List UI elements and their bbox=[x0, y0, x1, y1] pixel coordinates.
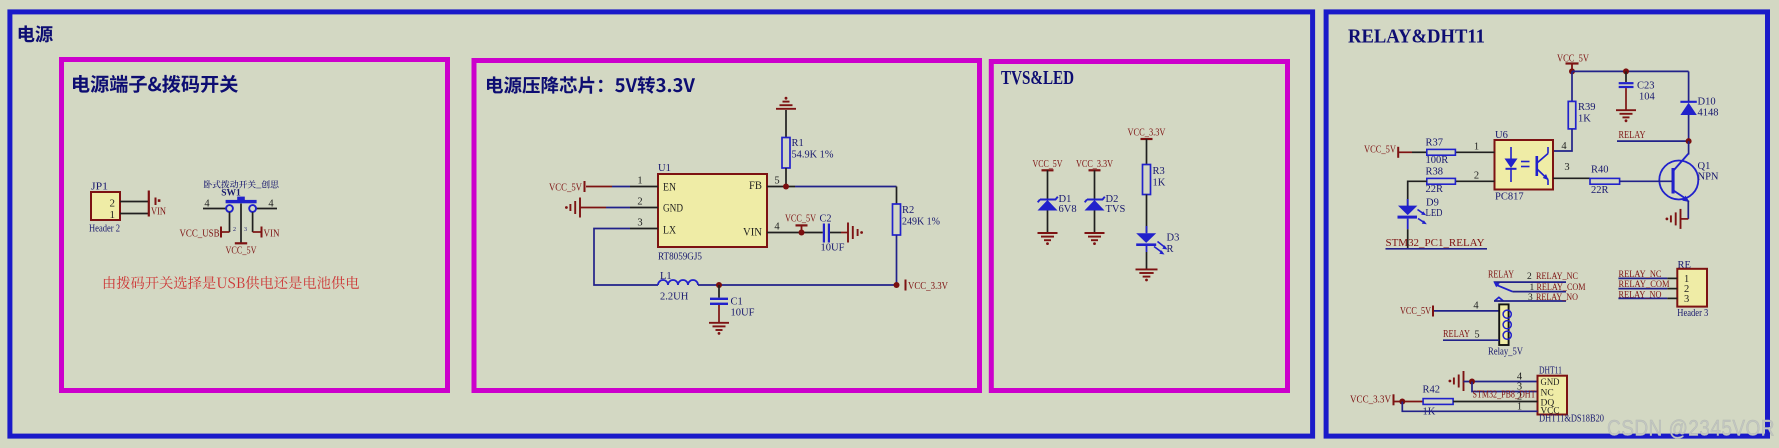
svg-text:54.9K 1%: 54.9K 1% bbox=[792, 150, 834, 161]
svg-text:RELAY_NC: RELAY_NC bbox=[1536, 272, 1578, 282]
R39 bottom wire bbox=[1553, 129, 1572, 151]
svg-text:100R: 100R bbox=[1426, 155, 1449, 166]
svg-text:LX: LX bbox=[663, 225, 677, 237]
U1 pin4 stub bbox=[767, 232, 795, 234]
svg-text:4: 4 bbox=[774, 222, 780, 233]
svg-text:R38: R38 bbox=[1426, 167, 1444, 178]
junction at C1 bbox=[716, 282, 722, 288]
svg-text:DHT11&DS18B20: DHT11&DS18B20 bbox=[1539, 414, 1604, 425]
svg-text:3: 3 bbox=[244, 227, 247, 233]
D9 light arrows bbox=[1418, 210, 1425, 223]
wire gnd to DHT11 GND bbox=[1464, 381, 1538, 383]
ground at DHT11 bbox=[1463, 371, 1465, 391]
svg-text:VIN: VIN bbox=[151, 207, 166, 218]
svg-text:RELAY: RELAY bbox=[1619, 130, 1646, 141]
power port VCC_5V bar under SW1 bbox=[235, 242, 247, 244]
relay NO contact wire bbox=[1494, 300, 1566, 302]
svg-text:D9: D9 bbox=[1426, 198, 1439, 209]
D10 bottom wire bbox=[1688, 115, 1690, 141]
net terminal bar at JP1 bbox=[148, 191, 150, 217]
junction at C23 bbox=[1623, 68, 1629, 74]
svg-text:4148: 4148 bbox=[1698, 108, 1719, 119]
SW1 left wire bbox=[203, 208, 226, 210]
RE pin1 stub bbox=[1667, 277, 1677, 279]
U6 internal transistor bbox=[1536, 156, 1539, 176]
wire to VCC_USB bbox=[222, 231, 230, 233]
junction VCC_3.3V branch bbox=[1399, 399, 1405, 405]
svg-text:R42: R42 bbox=[1423, 385, 1441, 396]
svg-text:4: 4 bbox=[1561, 141, 1567, 152]
C23 bottom stub bbox=[1625, 88, 1627, 110]
diode D10 cathode bar bbox=[1680, 101, 1696, 103]
ground below C23 bbox=[1616, 109, 1636, 111]
svg-text:R2: R2 bbox=[902, 205, 914, 216]
svg-text:EN: EN bbox=[663, 182, 677, 194]
Q1 base bar bbox=[1672, 168, 1675, 194]
sub-box 电源压降芯片 frame bbox=[474, 61, 980, 391]
svg-text:C23: C23 bbox=[1637, 81, 1655, 92]
svg-text:R: R bbox=[1167, 244, 1174, 255]
capacitor C2 left plate bbox=[823, 224, 825, 243]
C23 top stub bbox=[1625, 71, 1627, 82]
svg-text:RELAY_COM: RELAY_COM bbox=[1619, 280, 1670, 290]
svg-text:RELAY&DHT11: RELAY&DHT11 bbox=[1348, 26, 1485, 48]
svg-text:R1: R1 bbox=[792, 138, 804, 149]
svg-text:104: 104 bbox=[1639, 92, 1656, 103]
RE pin2 stub bbox=[1667, 288, 1677, 290]
svg-text:1: 1 bbox=[110, 209, 116, 221]
svg-text:VCC_5V: VCC_5V bbox=[549, 183, 582, 194]
capacitor C1 bottom plate bbox=[710, 303, 728, 305]
D3 light arrows bbox=[1154, 242, 1165, 253]
ground at U1.GND bbox=[579, 198, 581, 218]
svg-text:R40: R40 bbox=[1591, 165, 1609, 176]
R3-D3 wire blue part bbox=[1146, 226, 1148, 233]
relay arm bbox=[1496, 285, 1513, 292]
svg-text:10UF: 10UF bbox=[731, 308, 755, 319]
U1 pin2 stub bbox=[630, 207, 658, 209]
svg-text:Header 3: Header 3 bbox=[1677, 308, 1708, 319]
relay coil body bbox=[1499, 304, 1508, 345]
svg-text:249K 1%: 249K 1% bbox=[902, 217, 940, 228]
resistor R2 bbox=[893, 204, 901, 235]
U6 pin2 stub bbox=[1455, 180, 1494, 182]
svg-text:VCC_5V: VCC_5V bbox=[1033, 159, 1063, 170]
wire to NC pin bbox=[1472, 382, 1538, 392]
JP1 pin 1 wire bbox=[120, 213, 148, 215]
relay COM contact wire bbox=[1512, 291, 1566, 293]
resistor R38 bbox=[1427, 178, 1456, 184]
C2 right stub bbox=[830, 232, 841, 234]
svg-text:VCC_5V: VCC_5V bbox=[1364, 145, 1396, 156]
annotation 由拨码开关选择是USB供电还是电池供电 bbox=[104, 276, 359, 289]
R39 top wire bbox=[1571, 71, 1573, 101]
capacitor C2 right plate bbox=[828, 224, 830, 243]
title 电源压降芯片：5V转3.3V bbox=[487, 76, 695, 94]
net terminal bar VCC_USB bbox=[220, 227, 222, 238]
title 电源端子&拨码开关 bbox=[73, 75, 238, 93]
net terminal bar VCC_3.3V bbox=[905, 280, 907, 291]
svg-text:RELAY_NO: RELAY_NO bbox=[1536, 293, 1578, 303]
resistor R39 bbox=[1568, 101, 1576, 128]
svg-text:4: 4 bbox=[1473, 300, 1479, 311]
sub-box 电源端子&拨码开关 frame bbox=[62, 60, 448, 391]
ground above R1 bbox=[776, 108, 796, 110]
R3 top wire bbox=[1146, 139, 1148, 165]
svg-text:PC817: PC817 bbox=[1495, 192, 1524, 203]
R3 bottom wire bbox=[1146, 195, 1148, 233]
wire RELAY_COM to RE bbox=[1618, 288, 1667, 290]
R2 bottom wire bbox=[896, 235, 898, 285]
svg-text:LED: LED bbox=[1426, 208, 1443, 219]
svg-text:R39: R39 bbox=[1578, 102, 1596, 113]
capacitor C23 plates bbox=[1619, 82, 1634, 84]
resistor R3 bbox=[1143, 165, 1151, 195]
relay NO contact symbol bbox=[1495, 297, 1504, 301]
wire FB to R2 bbox=[896, 187, 898, 205]
wire VCC_3.3V to R42 bbox=[1395, 401, 1424, 403]
wire rail corner to D10 bbox=[1688, 71, 1690, 101]
svg-text:R3: R3 bbox=[1153, 166, 1165, 177]
VCC_5V stem bbox=[1571, 64, 1573, 72]
wire FB node bbox=[795, 186, 897, 188]
svg-text:VCC_5V: VCC_5V bbox=[785, 214, 816, 225]
svg-text:RT8059GJ5: RT8059GJ5 bbox=[658, 252, 702, 263]
LED D9 bbox=[1398, 206, 1417, 216]
svg-text:6V8: 6V8 bbox=[1059, 204, 1077, 215]
svg-text:GND: GND bbox=[663, 203, 683, 215]
svg-text:RELAY_NC: RELAY_NC bbox=[1619, 270, 1662, 280]
transistor Q1 circle bbox=[1659, 161, 1698, 200]
svg-text:D3: D3 bbox=[1167, 233, 1180, 244]
svg-text:Q1: Q1 bbox=[1698, 161, 1711, 172]
inductor L1 bbox=[658, 280, 698, 285]
junction VCC_3.3V bbox=[894, 282, 900, 288]
svg-text:Header 2: Header 2 bbox=[89, 224, 120, 235]
wire gnd to GND pin bbox=[580, 207, 606, 209]
U6 pin3 stub bbox=[1553, 177, 1590, 179]
svg-text:2: 2 bbox=[1474, 171, 1479, 182]
svg-text:STM32_PB8_DHT: STM32_PB8_DHT bbox=[1473, 390, 1536, 401]
JP1 pin 2 wire bbox=[120, 201, 148, 203]
wire RELAY_NC to RE bbox=[1618, 277, 1667, 279]
U6 internal LED bbox=[1505, 159, 1518, 169]
svg-text:2: 2 bbox=[1527, 272, 1532, 282]
svg-text:3: 3 bbox=[637, 218, 642, 229]
resistor R37 bbox=[1427, 149, 1456, 155]
SW1 centre leg wire bbox=[240, 204, 242, 243]
svg-text:DHT11: DHT11 bbox=[1539, 366, 1562, 377]
svg-text:2: 2 bbox=[637, 197, 642, 208]
svg-text:3: 3 bbox=[1528, 293, 1533, 303]
svg-text:CSDN @2345VOR: CSDN @2345VOR bbox=[1607, 416, 1775, 441]
wire VIN node bbox=[795, 232, 823, 234]
D2 bottom wire bbox=[1094, 211, 1096, 233]
svg-text:5: 5 bbox=[1474, 330, 1479, 341]
svg-text:R37: R37 bbox=[1426, 138, 1444, 149]
junction VIN/C2 bbox=[799, 230, 805, 236]
svg-text:22R: 22R bbox=[1426, 184, 1444, 195]
resistor R1 bbox=[782, 138, 790, 169]
R1 top wire bbox=[785, 110, 787, 138]
svg-text:1K: 1K bbox=[1578, 114, 1591, 125]
svg-text:3: 3 bbox=[1564, 162, 1569, 173]
svg-text:VCC_3.3V: VCC_3.3V bbox=[1128, 128, 1166, 139]
U6 coupling lines bbox=[1521, 161, 1530, 163]
optocoupler U6 body bbox=[1495, 140, 1554, 190]
junction FB/R1 bbox=[783, 184, 789, 190]
wire VCC_5V to EN bbox=[586, 186, 612, 188]
R1 bottom stub bbox=[785, 168, 787, 187]
svg-text:2: 2 bbox=[233, 227, 236, 233]
coil pin 4 wire bbox=[1434, 310, 1499, 312]
junction RELAY/D10/Q1 bbox=[1686, 138, 1692, 144]
svg-text:3: 3 bbox=[1684, 294, 1689, 305]
RE pin3 stub bbox=[1667, 297, 1677, 299]
power port VCC_5V at VIN bbox=[801, 225, 803, 232]
ground below D2 bbox=[1085, 232, 1105, 234]
ground at Q1 emitter bbox=[1680, 209, 1682, 229]
wire R38 to D9 bbox=[1408, 181, 1427, 206]
D1 top wire bbox=[1047, 170, 1049, 199]
label 卧式拨动开关_创思 bbox=[204, 180, 279, 188]
svg-text:VCC_5V: VCC_5V bbox=[226, 246, 257, 257]
svg-text:2: 2 bbox=[110, 198, 116, 210]
svg-text:TVS&LED: TVS&LED bbox=[1001, 67, 1074, 89]
svg-text:NC: NC bbox=[1541, 389, 1554, 399]
svg-text:1: 1 bbox=[1530, 283, 1535, 293]
R38-D9 wire blue part bbox=[1407, 199, 1409, 206]
title 电源 bbox=[19, 25, 53, 42]
D3 bottom wire bbox=[1146, 246, 1148, 252]
wire to Q1 collector bbox=[1688, 141, 1690, 154]
connector JP1 body bbox=[91, 192, 120, 220]
SW1 left contact circle bbox=[226, 205, 233, 212]
TVS diode D2 bbox=[1085, 197, 1105, 203]
svg-text:RELAY: RELAY bbox=[1443, 329, 1470, 340]
C1 stub down bbox=[718, 305, 720, 322]
resistor R42 bbox=[1423, 399, 1453, 405]
svg-text:VCC_3.3V: VCC_3.3V bbox=[1076, 159, 1113, 170]
SW1 right contact circle bbox=[249, 205, 256, 212]
sensor DHT11 body bbox=[1538, 376, 1568, 415]
svg-text:U1: U1 bbox=[658, 163, 671, 174]
regulator U1 body bbox=[658, 174, 767, 247]
U6 pin1 stub bbox=[1455, 151, 1494, 153]
svg-text:5: 5 bbox=[774, 176, 779, 187]
svg-text:1: 1 bbox=[1474, 142, 1479, 153]
svg-text:VCC_3.3V: VCC_3.3V bbox=[908, 281, 948, 292]
Q1 collector stroke bbox=[1674, 154, 1689, 171]
svg-text:C2: C2 bbox=[820, 214, 832, 225]
connector RE body bbox=[1677, 269, 1707, 307]
svg-text:D10: D10 bbox=[1698, 97, 1716, 108]
wire LX down to L1 bbox=[594, 229, 658, 286]
wire RELAY net bbox=[1617, 140, 1689, 142]
svg-text:NPN: NPN bbox=[1698, 172, 1719, 183]
U1 pin3 stub bbox=[630, 228, 658, 230]
capacitor C1 top plate bbox=[710, 298, 728, 300]
svg-text:STM32_PC1_RELAY: STM32_PC1_RELAY bbox=[1386, 238, 1485, 249]
sub-box TVS&LED frame bbox=[991, 62, 1287, 391]
wire STM32_PC1_RELAY bbox=[1386, 248, 1488, 250]
ground right of C2 bbox=[847, 223, 849, 243]
svg-text:C1: C1 bbox=[731, 297, 743, 308]
svg-text:JP1: JP1 bbox=[91, 182, 108, 193]
wire RELAY_NO to RE bbox=[1618, 297, 1667, 299]
relay NC contact wire bbox=[1494, 281, 1566, 283]
diode D10 bbox=[1680, 103, 1696, 115]
svg-text:FB: FB bbox=[749, 180, 762, 192]
resistor R40 bbox=[1590, 178, 1620, 184]
junction VCC_5V rail left bbox=[1569, 68, 1575, 74]
Q1 emitter stroke bbox=[1674, 191, 1688, 200]
wire to VIN bbox=[253, 231, 261, 233]
svg-text:RELAY: RELAY bbox=[1488, 269, 1514, 280]
SW1 right leg wire bbox=[252, 212, 254, 232]
LED D3 bbox=[1136, 233, 1156, 243]
svg-text:2.2UH: 2.2UH bbox=[660, 292, 689, 303]
net terminal bar VIN bbox=[261, 227, 263, 238]
C1 stub up bbox=[718, 285, 720, 298]
U1 pin5 stub bbox=[767, 186, 795, 188]
junction gnd/NC bbox=[1469, 379, 1475, 385]
svg-text:22R: 22R bbox=[1591, 185, 1609, 196]
svg-text:4: 4 bbox=[268, 199, 274, 210]
svg-text:VCC_3.3V: VCC_3.3V bbox=[1350, 395, 1391, 406]
wire VCC_5V to R37 bbox=[1399, 151, 1412, 153]
SW1 left leg wire bbox=[229, 212, 231, 232]
svg-text:VIN: VIN bbox=[264, 229, 280, 240]
sheet frame left (电源 section border) bbox=[10, 12, 1313, 436]
svg-text:U6: U6 bbox=[1495, 130, 1508, 141]
wire L1 to VCC_3.3V rail bbox=[698, 284, 897, 286]
svg-text:GND: GND bbox=[1541, 378, 1560, 388]
small bar VIN port bbox=[155, 198, 157, 206]
svg-text:TVS: TVS bbox=[1106, 204, 1126, 215]
D9 bottom wire bbox=[1407, 219, 1409, 230]
svg-text:1: 1 bbox=[637, 176, 642, 187]
svg-text:Relay_5V: Relay_5V bbox=[1488, 346, 1523, 357]
Q1 emitter wire bbox=[1687, 201, 1689, 219]
svg-text:10UF: 10UF bbox=[821, 243, 845, 254]
svg-text:L1: L1 bbox=[660, 271, 672, 282]
VCC_5V rail wire bbox=[1572, 70, 1689, 72]
wire to VCC pin bbox=[1402, 402, 1537, 412]
TVS diode D1 bbox=[1038, 197, 1058, 203]
svg-text:VCC_5V: VCC_5V bbox=[1400, 306, 1431, 317]
ground below D3 bbox=[1136, 268, 1158, 270]
svg-text:1K: 1K bbox=[1153, 178, 1166, 189]
coil pin 5 wire bbox=[1443, 339, 1499, 341]
D1 bottom wire bbox=[1047, 211, 1049, 233]
svg-text:VIN: VIN bbox=[743, 227, 763, 239]
sheet frame right (RELAY&DHT11 section border) bbox=[1326, 12, 1767, 436]
svg-text:RELAY_NO: RELAY_NO bbox=[1619, 291, 1662, 301]
ground below C1 bbox=[709, 322, 729, 324]
svg-text:VCC_USB: VCC_USB bbox=[180, 229, 220, 240]
svg-text:RELAY_COM: RELAY_COM bbox=[1537, 283, 1586, 293]
wire R42 to DQ bbox=[1453, 401, 1537, 403]
U1 pin1 stub bbox=[630, 186, 658, 188]
wire R40 to Q1 base bbox=[1620, 180, 1672, 182]
SW1 slider bar bbox=[226, 200, 257, 203]
D2 top wire bbox=[1094, 170, 1096, 199]
relay coil turns bbox=[1503, 310, 1511, 318]
SW1 right wire bbox=[256, 208, 277, 210]
ground below D1 bbox=[1038, 232, 1058, 234]
